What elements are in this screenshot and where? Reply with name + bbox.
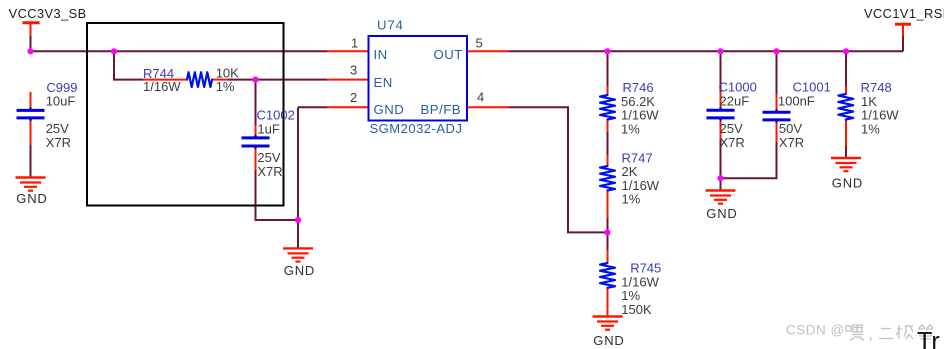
svg-text:OUT: OUT: [434, 47, 463, 62]
svg-text:X7R: X7R: [257, 164, 282, 179]
svg-text:1%: 1%: [861, 121, 880, 136]
svg-text:X7R: X7R: [46, 135, 71, 150]
svg-text:GND: GND: [706, 206, 737, 221]
svg-text:GND: GND: [374, 102, 405, 117]
svg-text:1%: 1%: [621, 121, 640, 136]
svg-text:1/16W: 1/16W: [143, 79, 181, 94]
svg-text:SGM2032-ADJ: SGM2032-ADJ: [370, 121, 463, 136]
svg-text:1%: 1%: [622, 192, 641, 207]
svg-text:1uF: 1uF: [257, 122, 279, 137]
svg-text:X7R: X7R: [720, 135, 745, 150]
svg-text:10uF: 10uF: [46, 94, 76, 109]
svg-text:BP/FB: BP/FB: [421, 102, 462, 117]
svg-text:R748: R748: [861, 80, 892, 95]
svg-text:VCC1V1_RSM: VCC1V1_RSM: [864, 6, 944, 21]
svg-text:22uF: 22uF: [720, 93, 750, 108]
svg-text:150K: 150K: [621, 302, 652, 317]
svg-text:5: 5: [476, 35, 483, 50]
svg-text:VCC3V3_SB: VCC3V3_SB: [9, 6, 87, 21]
svg-text:100nF: 100nF: [778, 93, 815, 108]
svg-text:IN: IN: [374, 47, 388, 62]
svg-text:25V: 25V: [257, 150, 280, 165]
svg-text:GND: GND: [832, 176, 863, 191]
svg-text:GND: GND: [593, 333, 624, 348]
svg-text:GND: GND: [284, 263, 315, 278]
svg-text:1: 1: [351, 35, 358, 50]
svg-text:25V: 25V: [46, 121, 69, 136]
svg-text:2: 2: [350, 90, 357, 105]
svg-text:1%: 1%: [216, 79, 235, 94]
svg-text:X7R: X7R: [779, 135, 804, 150]
svg-text:3: 3: [350, 62, 357, 77]
svg-text:U74: U74: [377, 18, 404, 33]
svg-text:4: 4: [477, 89, 484, 104]
svg-text:C1002: C1002: [257, 108, 295, 123]
svg-text:CSDN @: CSDN @: [786, 323, 845, 338]
svg-text:Tr: Tr: [917, 328, 940, 349]
svg-text:GND: GND: [16, 191, 47, 206]
svg-text:EN: EN: [374, 75, 393, 90]
